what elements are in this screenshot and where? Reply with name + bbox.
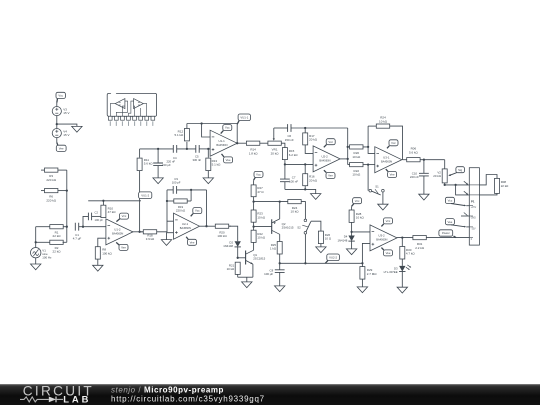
wire: [35, 258, 37, 265]
ground: [316, 247, 326, 253]
svg-text:1N4148: 1N4148: [223, 244, 233, 248]
svg-text:BA4560N: BA4560N: [180, 226, 191, 230]
svg-text:22 kΩ: 22 kΩ: [501, 184, 509, 188]
node junction: [367, 163, 369, 165]
diode D4 1N4148: [348, 236, 354, 242]
svg-text:4.7 µF: 4.7 µF: [73, 237, 82, 241]
svg-text:+15V: +15V: [471, 207, 477, 209]
svg-text:100 kΩ: 100 kΩ: [217, 234, 227, 238]
svg-text:100 kΩ: 100 kΩ: [102, 251, 112, 255]
node junction: [252, 225, 254, 227]
power label Vcc: [381, 224, 383, 227]
resistor R22: [348, 164, 350, 166]
capacitor C4: [173, 145, 176, 153]
resistor R2: [36, 241, 51, 243]
capacitor C8: [279, 263, 281, 270]
IC body U1 dual op-amp package: [111, 93, 116, 96]
node junction: [423, 159, 425, 161]
svg-text:3.9 kΩ: 3.9 kΩ: [146, 237, 155, 241]
capacitor C2: [88, 213, 91, 221]
net label Power: [439, 230, 453, 236]
ground: [72, 126, 82, 132]
svg-text:Vcc: Vcc: [355, 199, 360, 203]
svg-text:BA4560N: BA4560N: [381, 159, 392, 163]
svg-text:Vee: Vee: [447, 220, 452, 224]
svg-text:220 nF: 220 nF: [410, 175, 419, 179]
wire feedback top: [102, 216, 104, 218]
svg-text:10 kΩ: 10 kΩ: [352, 173, 361, 177]
svg-text:220 kΩ: 220 kΩ: [46, 198, 56, 202]
ground: [93, 265, 103, 271]
resistor R8: [95, 247, 100, 259]
resistor R3: [41, 169, 45, 171]
svg-text:BA4560N: BA4560N: [112, 232, 123, 236]
resistor R30: [401, 238, 403, 247]
power net label Vee: [56, 145, 66, 151]
resistor R11: [139, 149, 141, 158]
node junction: [35, 241, 37, 243]
svg-text:Vcc: Vcc: [448, 199, 453, 203]
node junction: [200, 122, 202, 124]
resistor R28: [351, 206, 353, 210]
node junction: [279, 200, 281, 202]
ground: [153, 178, 163, 184]
svg-text:10 kΩ: 10 kΩ: [291, 210, 300, 214]
capacitor C6: [288, 124, 291, 132]
svg-text:20 kΩ: 20 kΩ: [271, 151, 280, 155]
svg-text:U3-1: U3-1: [383, 156, 390, 160]
wire: [56, 116, 58, 129]
svg-text:6.2 kΩ: 6.2 kΩ: [289, 153, 299, 157]
svg-text:C2: C2: [95, 211, 99, 215]
source V1 sine: [31, 248, 41, 258]
resistor R14: [237, 142, 246, 144]
node junction: [401, 236, 403, 238]
svg-text:U3-2: U3-2: [378, 234, 385, 238]
svg-text:10 kΩ: 10 kΩ: [352, 155, 361, 159]
svg-text:-15V: -15V: [471, 228, 476, 230]
wire: [66, 170, 68, 242]
power label Vcc: [387, 146, 389, 149]
resistor R29: [361, 263, 363, 266]
wire feedback down: [236, 124, 238, 144]
svg-text:BA4560N: BA4560N: [319, 159, 330, 163]
svg-text:10 kΩ: 10 kΩ: [227, 267, 235, 271]
svg-text:http://circuitlab.com/c35vyh93: http://circuitlab.com/c35vyh9339gq7: [111, 394, 265, 403]
svg-text:Vcc: Vcc: [225, 126, 230, 130]
wire signal: [140, 148, 174, 150]
op-amp U3-1: [375, 147, 402, 173]
svg-text:10 kΩ: 10 kΩ: [356, 216, 365, 220]
wire: [35, 227, 37, 248]
wire feedback down: [206, 190, 208, 226]
node junction: [186, 148, 188, 150]
ground: [346, 249, 356, 255]
net label VU2-2: [327, 254, 340, 261]
svg-text:2SA1015: 2SA1015: [282, 226, 294, 230]
capacitor C1: [75, 223, 78, 231]
svg-text:VU2-2: VU2-2: [329, 255, 337, 259]
connector P1 body: [469, 168, 479, 245]
wire: [56, 138, 58, 143]
resistor R6: [41, 190, 45, 192]
node junction: [347, 158, 349, 160]
wire S2 to bus: [304, 234, 306, 263]
wire from R20b: [229, 226, 238, 241]
LED D3 LTL-307EE: [399, 266, 405, 272]
transistor Q2 2SA1015: [271, 219, 273, 234]
node junction: [304, 188, 306, 190]
wire output: [340, 158, 348, 160]
svg-text:Sig: Sig: [458, 168, 462, 172]
svg-text:100 pF: 100 pF: [95, 218, 104, 222]
resistor R24b: [288, 200, 301, 204]
wire plus to ground: [167, 233, 174, 240]
op-amp U2-1: [174, 213, 200, 239]
wire minus column: [166, 190, 168, 221]
ground: [161, 240, 171, 246]
voltage source V3: [52, 107, 61, 116]
connector P1 internal pins: [469, 184, 479, 186]
resistor R08: [479, 175, 497, 185]
resistor R21: [235, 262, 240, 274]
wire: [382, 192, 384, 204]
net label VU1-1: [237, 121, 239, 124]
svg-text:47 kΩ: 47 kΩ: [108, 210, 117, 214]
svg-text:U1-1: U1-1: [218, 139, 225, 143]
resistor R24 feedback: [367, 126, 369, 147]
svg-text:VU1-1: VU1-1: [240, 115, 248, 119]
node junction: [237, 257, 239, 259]
svg-text:1N4148: 1N4148: [337, 238, 347, 242]
resistor R20: [348, 146, 350, 148]
svg-text:5.1 kΩ: 5.1 kΩ: [212, 163, 222, 167]
ground: [311, 194, 321, 200]
svg-text:330 nF: 330 nF: [192, 158, 201, 162]
wire S2 throw to R26: [311, 221, 321, 231]
power label Vcc: [254, 171, 263, 177]
ground: [397, 287, 407, 293]
svg-text:5.6 kΩ: 5.6 kΩ: [144, 162, 154, 166]
resistor R23: [251, 210, 256, 222]
power label Vcc: [445, 197, 454, 203]
svg-text:Vcc: Vcc: [58, 94, 63, 98]
svg-text:U2-1: U2-1: [182, 222, 189, 226]
power label Vcc: [116, 219, 119, 222]
node junction: [207, 148, 209, 150]
resistor R15: [282, 148, 287, 160]
node junction: [56, 123, 58, 125]
resistor R26: [318, 231, 323, 244]
node junction: [304, 262, 306, 264]
svg-text:10 Ω: 10 Ω: [325, 237, 332, 241]
power label Vcc: [221, 131, 224, 134]
op-amp U1-1: [210, 130, 237, 156]
resistor R06: [403, 159, 407, 161]
resistor R27: [253, 180, 255, 185]
wire: [97, 259, 99, 265]
node junction: [347, 146, 349, 148]
resistor R18: [140, 231, 143, 233]
capacitor C9 feedback: [167, 189, 173, 191]
wire output: [397, 237, 413, 239]
svg-text:220 kΩ: 220 kΩ: [176, 209, 186, 213]
ground: [242, 282, 252, 288]
power label Vee: [222, 154, 225, 157]
svg-text:Vee: Vee: [59, 146, 64, 150]
pin arrow: [464, 181, 468, 184]
svg-text:15 V: 15 V: [63, 133, 69, 137]
power label Vcc: [191, 214, 193, 217]
svg-text:1 kΩ: 1 kΩ: [270, 247, 277, 251]
wire VR1 to R15: [282, 143, 285, 147]
wire minus input: [202, 124, 211, 138]
svg-text:Vcc: Vcc: [391, 141, 396, 145]
svg-text:20 kΩ: 20 kΩ: [433, 174, 441, 178]
resistor R31: [413, 236, 426, 240]
wire Q1 base: [238, 257, 246, 259]
wire Q2 base: [254, 226, 272, 228]
svg-text:100 µF: 100 µF: [264, 272, 273, 276]
svg-text:BA4560N: BA4560N: [376, 238, 387, 242]
svg-text:Vcc: Vcc: [386, 219, 391, 223]
voltage source V4: [52, 129, 61, 138]
svg-text:47 Ω: 47 Ω: [257, 190, 264, 194]
resistor R1: [36, 226, 50, 228]
capacitor C10: [423, 160, 425, 174]
resistor R16: [304, 164, 306, 173]
ground: [419, 194, 429, 200]
svg-text:10 kΩ: 10 kΩ: [257, 215, 265, 219]
svg-text:10 kΩ: 10 kΩ: [379, 119, 388, 123]
svg-text:150 nF: 150 nF: [285, 138, 294, 142]
IC internal op-amp A: [115, 99, 125, 109]
node junction: [304, 163, 306, 165]
IC pin number labels: [110, 121, 111, 126]
wire plus input: [362, 243, 370, 263]
capacitor C5: [196, 145, 199, 153]
svg-text:220 kΩ: 220 kΩ: [46, 178, 56, 182]
svg-text:20 kΩ: 20 kΩ: [309, 178, 318, 182]
op-amp U1-2: [106, 219, 133, 245]
node junction: [350, 231, 352, 233]
svg-text:U2-2: U2-2: [321, 155, 328, 159]
power label Vcc: [353, 198, 362, 204]
resistor R17: [304, 128, 306, 133]
svg-text:S1: S1: [375, 184, 379, 188]
potentiometer V2: [444, 160, 446, 169]
wire Q2 collector down: [279, 234, 281, 241]
svg-text:1.8 kΩ: 1.8 kΩ: [249, 151, 259, 155]
svg-text:Vcc: Vcc: [122, 214, 127, 218]
capacitor C7: [284, 164, 286, 179]
switch S1: [367, 165, 369, 191]
net label Sig: [456, 167, 465, 173]
svg-text:Vee: Vee: [190, 240, 195, 244]
node junction: [190, 189, 192, 191]
op-amp U3-2: [370, 225, 397, 251]
wire row2: [456, 185, 470, 195]
node junction: [138, 231, 140, 233]
node junction: [304, 127, 306, 129]
svg-text:100 pF: 100 pF: [172, 181, 181, 185]
svg-text:20 kΩ: 20 kΩ: [309, 138, 318, 142]
svg-text:Vcc: Vcc: [195, 209, 200, 213]
node junction: [66, 226, 68, 228]
svg-text:stenjo / Micro90pv-preamp: stenjo / Micro90pv-preamp: [111, 385, 224, 394]
power net label Vcc: [56, 92, 65, 98]
power label Vee: [116, 242, 119, 245]
wire bus: [280, 262, 363, 264]
node junction: [66, 189, 68, 191]
resistor R25: [277, 242, 282, 255]
logo resistor zigzag and diode: [20, 397, 49, 402]
transistor Q1 2SC1815: [245, 251, 247, 265]
ground: [357, 287, 367, 293]
node junction: [252, 200, 254, 202]
svg-text:Vee: Vee: [226, 158, 231, 162]
wire: [254, 201, 288, 203]
potentiometer VR1: [268, 141, 281, 145]
wire: [57, 124, 77, 126]
wire output: [132, 231, 143, 233]
svg-text:5.1 kΩ: 5.1 kΩ: [174, 133, 184, 137]
wire: [56, 103, 58, 107]
wire plus input: [285, 163, 313, 165]
node junction: [236, 142, 238, 144]
capacitor C3: [157, 149, 159, 163]
resistor R12: [186, 142, 188, 149]
wire Q1 emitter: [252, 264, 254, 277]
wire feedback top: [274, 127, 288, 129]
power label Vcc: [324, 145, 327, 148]
resistor R13: [207, 149, 209, 158]
power label Vee: [381, 248, 383, 250]
svg-text:22 kΩ: 22 kΩ: [53, 234, 62, 238]
node junction: [82, 226, 84, 228]
wire emitter rail: [238, 276, 253, 278]
svg-text:Vee: Vee: [386, 251, 391, 255]
svg-text:220 µF: 220 µF: [162, 163, 171, 167]
svg-text:2.7 MΩ: 2.7 MΩ: [367, 272, 378, 276]
wire: [190, 190, 192, 201]
svg-text:Vcc: Vcc: [256, 173, 261, 177]
svg-text:LAB: LAB: [63, 394, 91, 405]
svg-text:5.6 kΩ: 5.6 kΩ: [409, 150, 419, 154]
wire feedback: [187, 123, 237, 125]
wire Q2 emitter up: [279, 202, 281, 219]
svg-text:2.2 kΩ: 2.2 kΩ: [415, 246, 425, 250]
svg-text:100 Hz: 100 Hz: [42, 255, 52, 259]
IC internal traces: [110, 104, 115, 117]
power label Vee: [386, 169, 388, 172]
power label Vee: [186, 237, 188, 240]
svg-text:Vee: Vee: [121, 246, 126, 250]
svg-text:Vee: Vee: [390, 173, 395, 177]
svg-text:2SC1815: 2SC1815: [253, 257, 265, 261]
svg-text:VU1-2: VU1-2: [141, 193, 149, 197]
svg-text:LTL-307EE: LTL-307EE: [384, 270, 398, 274]
power label Vee: [324, 170, 326, 172]
resistor R22b: [251, 230, 256, 242]
op-amp U2-2: [313, 146, 340, 172]
diode D2 1N4148: [235, 241, 241, 247]
svg-text:P1: P1: [471, 199, 475, 203]
svg-text:100 nF: 100 nF: [289, 179, 298, 183]
svg-text:U1-2: U1-2: [114, 228, 121, 232]
net label VU1-2: [139, 192, 152, 199]
svg-text:4.7 kΩ: 4.7 kΩ: [406, 252, 416, 256]
node junction: [157, 148, 159, 150]
pin arrow: [464, 191, 468, 194]
switch S2: [304, 219, 307, 222]
wire ground rail: [285, 189, 316, 193]
resistor R19 feedback: [167, 200, 174, 202]
power label Vee: [445, 219, 454, 225]
svg-text:BA4560N: BA4560N: [216, 143, 227, 147]
ground: [275, 286, 285, 292]
ground: [31, 264, 41, 270]
ground: [203, 178, 213, 184]
node junction: [284, 163, 286, 165]
svg-text:Vcc: Vcc: [328, 140, 333, 144]
node junction: [367, 146, 369, 148]
resistor R20b 100k: [200, 225, 216, 227]
node junction: [102, 200, 104, 202]
wire to feedback: [83, 216, 88, 226]
wire GND pin: [461, 215, 469, 217]
svg-text:15 V: 15 V: [63, 111, 69, 115]
IC pins 1-8: [108, 116, 112, 120]
wire: [347, 128, 349, 165]
svg-text:22 kΩ: 22 kΩ: [53, 250, 62, 254]
svg-text:10 kΩ: 10 kΩ: [257, 236, 265, 240]
node junction: [361, 262, 363, 264]
ground: [378, 204, 388, 210]
wire minus: [352, 231, 370, 233]
svg-text:Vee: Vee: [328, 174, 333, 178]
svg-text:Power: Power: [442, 231, 450, 235]
wire plus input: [98, 238, 106, 246]
node junction: [205, 225, 207, 227]
svg-text:GND: GND: [471, 218, 476, 220]
IC internal op-amp B: [134, 99, 144, 109]
node junction: [279, 262, 281, 264]
svg-text:S2: S2: [297, 226, 301, 230]
resistor R10: [101, 205, 106, 217]
node junction: [166, 200, 168, 202]
